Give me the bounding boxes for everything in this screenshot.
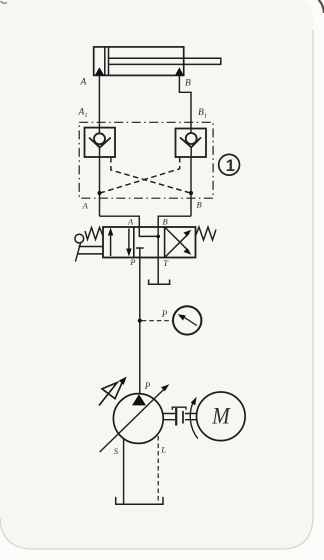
wire B: cylinder port B down with jog to check valve V2 [179,75,191,133]
check valve V1 outlet stub [99,148,101,158]
drain line L (dashed) [157,436,159,501]
coupling top bracket [172,407,186,410]
svg-text:A: A [127,217,134,227]
wire B jog into valve port B [158,216,191,227]
pilot line from V1 (dashed, crossing) [111,157,191,193]
svg-text:B: B [197,200,202,210]
valve lever plates [77,247,103,254]
valve right envelope crossed arrows [165,233,189,257]
svg-text:P: P [144,381,151,391]
cylinder body [94,47,184,76]
tank T2 [116,497,163,504]
check valve V2 outlet stub [190,147,192,157]
suction line S [123,439,125,504]
svg-text:A: A [80,78,87,88]
check valve V2 seat [180,137,201,147]
valve left spring [85,228,103,240]
pressure gauge G1 [173,306,201,334]
valve centre envelope: A to B link [139,227,158,236]
pump P1 circle [113,394,163,444]
wire A: cylinder port A down to check valve V1 [98,75,100,133]
balloon 1 [219,154,240,175]
junction dot B [189,191,193,195]
check valve V1 ball [94,133,105,144]
tank T1 [149,280,170,285]
valve centre junction dot [156,235,160,239]
svg-text:M: M [211,404,231,429]
check valve V1 seat [89,138,111,148]
wire P from valve to pump [139,258,141,394]
junction dot A [98,191,102,195]
valve left envelope down arrow [128,229,130,253]
cylinder rod [109,58,221,64]
valve left envelope up arrow [110,231,112,256]
valve lever arm [75,243,80,262]
coupling bars [175,408,177,426]
check valve V1 square [85,128,116,157]
wire B below V2 to junction [190,157,192,216]
pump adjustment zigzag arrow [99,380,124,406]
cylinder piston [104,47,106,76]
svg-text:S: S [114,446,119,456]
svg-text:L: L [160,445,166,455]
check valve V2 square [176,129,207,158]
valve lever knob [75,234,84,243]
shaft pump to coupling [163,414,175,420]
svg-text:P: P [161,309,168,319]
svg-text:1: 1 [226,157,235,175]
valve centre envelope: blocked P [136,248,144,258]
svg-text:A: A [82,201,89,211]
shaft coupling to motor [185,414,197,420]
port B triangle [175,67,184,75]
junction dot gauge tap [138,319,142,323]
wire T to tank [157,258,159,285]
svg-text:B: B [185,79,191,89]
gauge needle [184,317,197,325]
valve 4/3 body [103,227,196,258]
port A triangle [95,67,104,75]
svg-text:B: B [163,217,168,227]
svg-text:P: P [129,257,135,267]
rotation arrow arc [190,400,198,439]
wire A below V1 to junction [99,157,101,216]
pilot line from V2 (dashed, crossing) [100,157,180,193]
chain-line enclosure box (dash-dot) [79,122,213,198]
wire A jog into valve port A [100,216,140,227]
valve right spring [196,227,217,240]
pump outlet triangle [132,394,146,405]
gauge pilot line (dashed) [142,320,173,322]
valve centre envelope: B-T through line [157,227,159,258]
check valve V2 ball [186,133,197,144]
motor M1 circle [197,392,246,441]
pump variable displacement arrow [100,387,166,452]
